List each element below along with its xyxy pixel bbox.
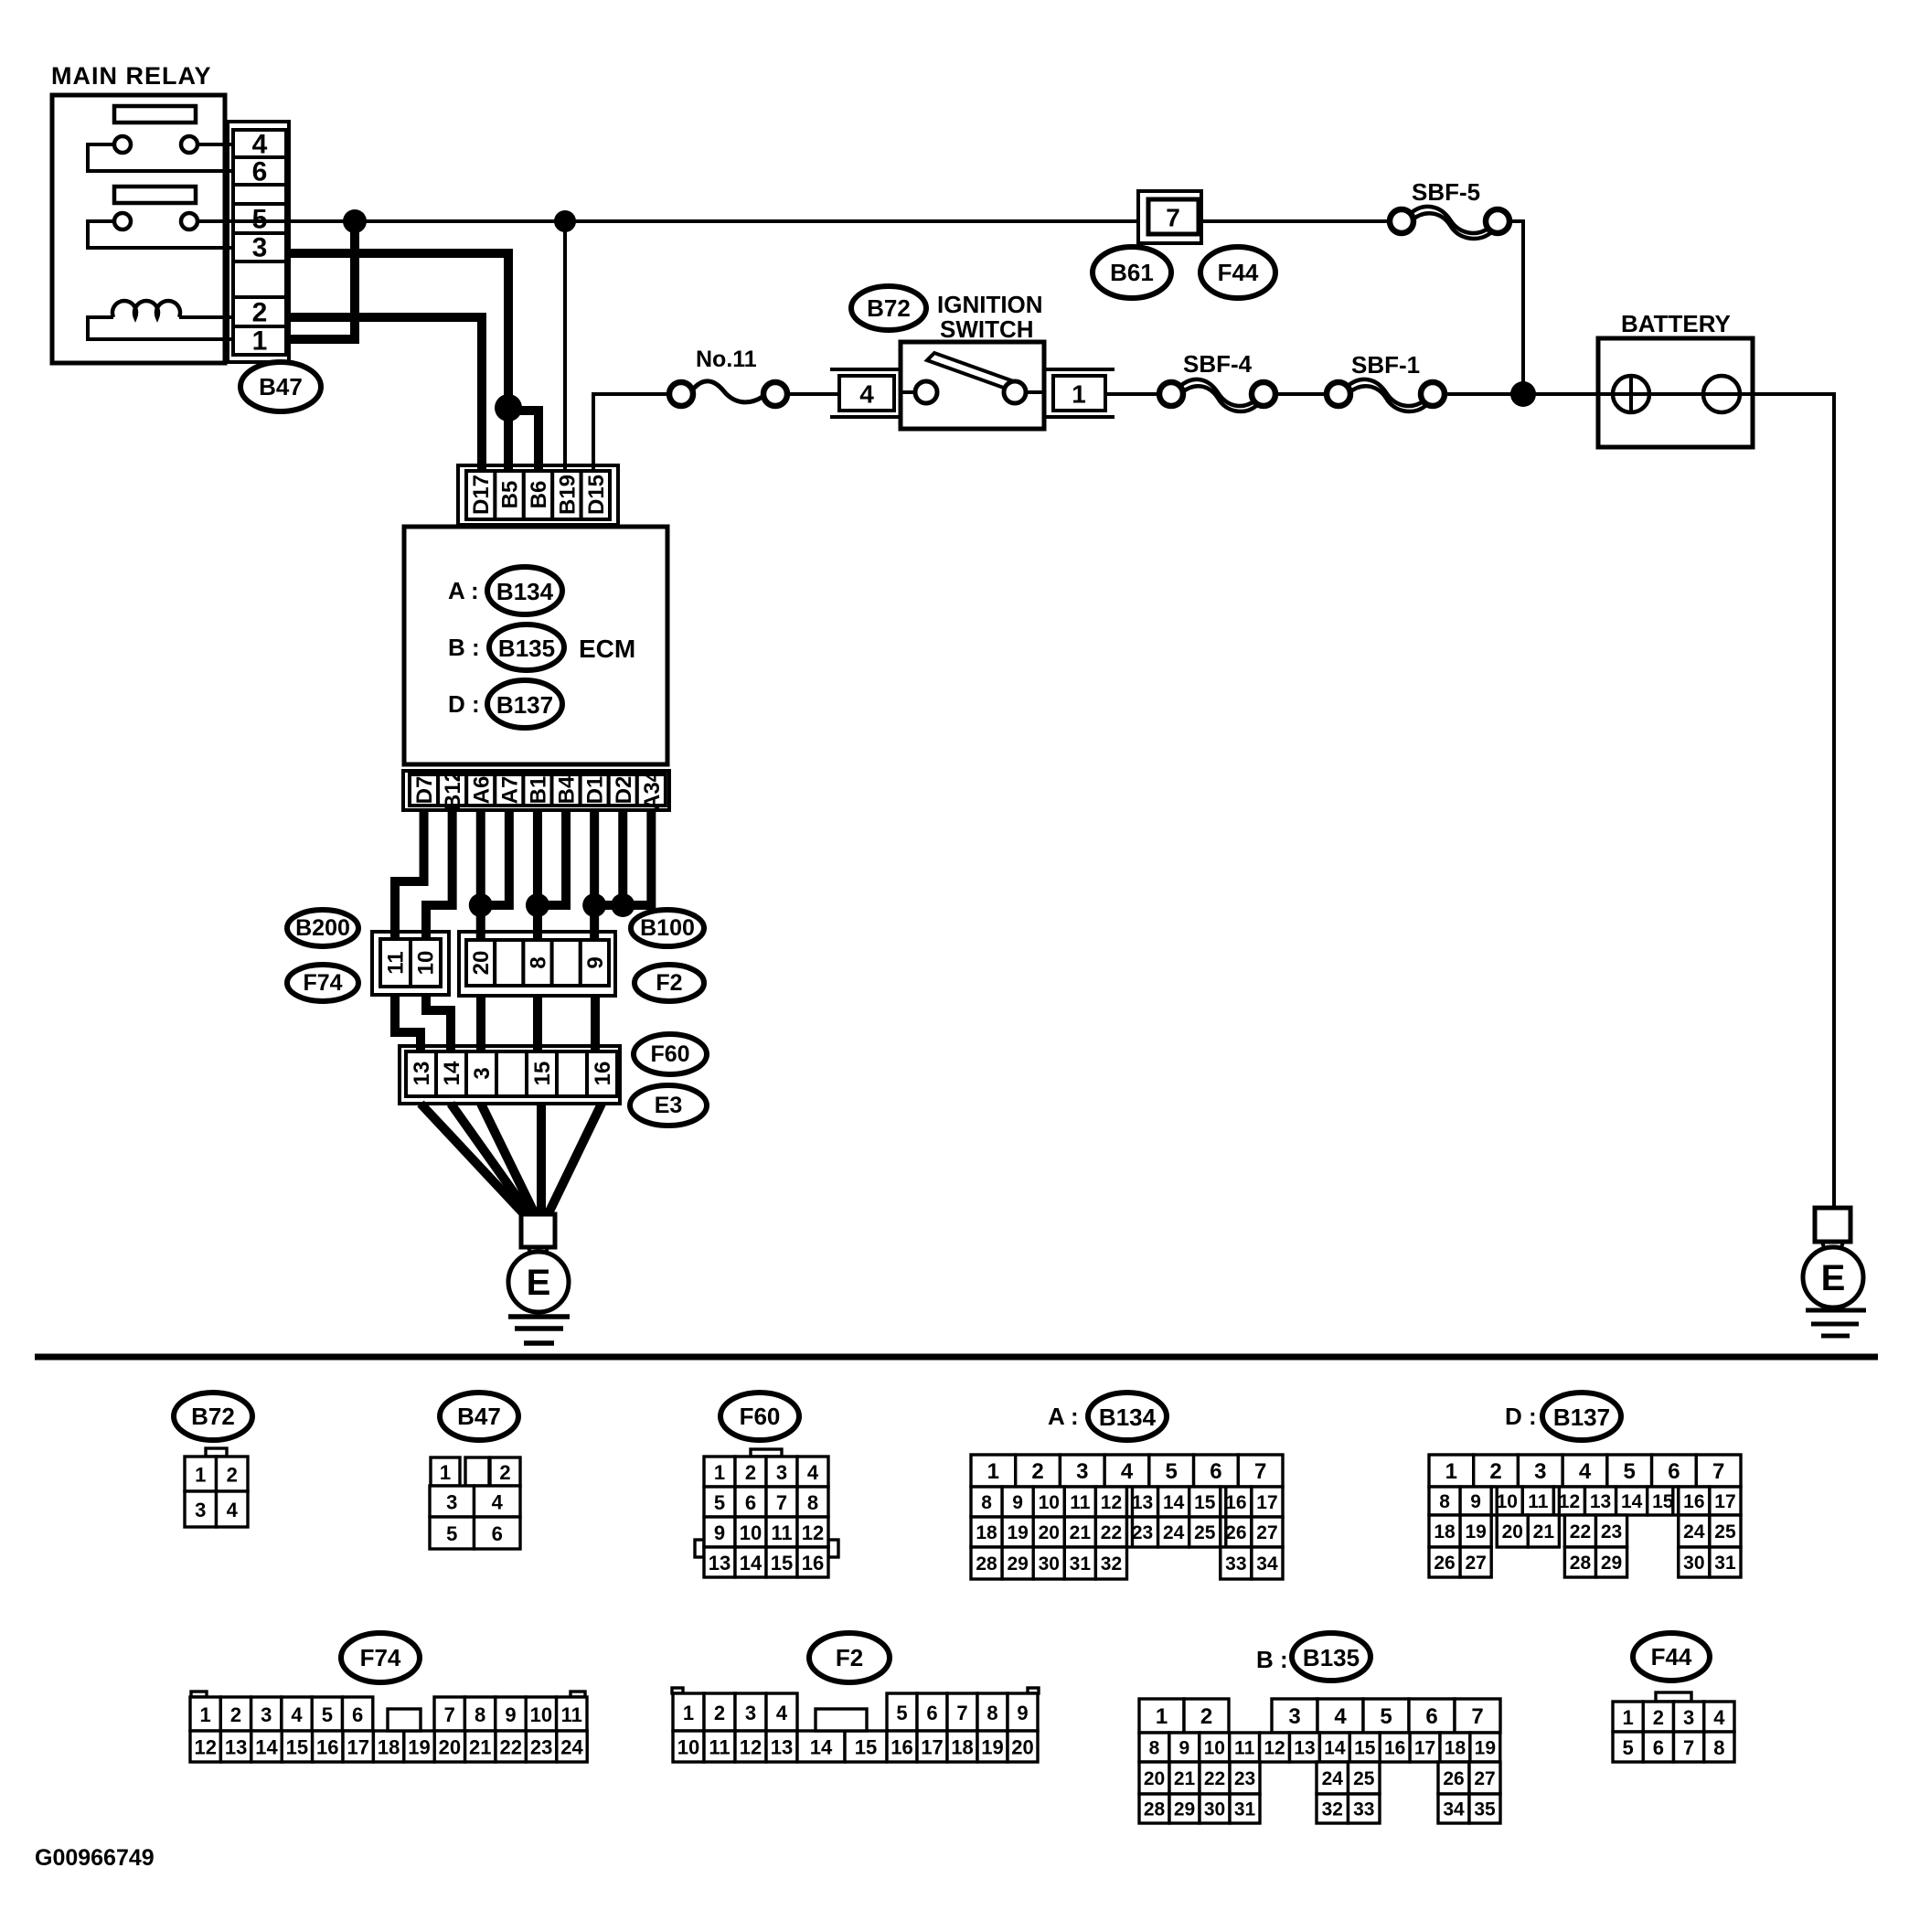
svg-text:17: 17	[1414, 1738, 1435, 1759]
svg-text:19: 19	[981, 1736, 1003, 1759]
svg-text:4: 4	[1334, 1704, 1347, 1729]
svg-text:B134: B134	[496, 578, 554, 605]
wire SBF-1 to battery	[1445, 392, 1598, 396]
connector B:B135 label	[1256, 1633, 1370, 1681]
svg-text:28: 28	[976, 1553, 997, 1574]
svg-text:28: 28	[1570, 1553, 1592, 1574]
svg-text:1: 1	[200, 1703, 211, 1726]
svg-text:10: 10	[740, 1521, 762, 1544]
connector D:B137 label	[1505, 1393, 1621, 1440]
wire relay pin 1 to B+ rail	[286, 221, 355, 339]
svg-text:3: 3	[1076, 1459, 1088, 1484]
svg-text:5: 5	[1623, 1736, 1634, 1759]
svg-text:B47: B47	[259, 373, 303, 400]
svg-text:7: 7	[1471, 1704, 1483, 1729]
wire SBF-5 down to battery node	[1509, 221, 1523, 394]
svg-text:3: 3	[195, 1499, 206, 1521]
svg-text:11: 11	[1070, 1492, 1091, 1513]
svg-text:8: 8	[527, 956, 551, 968]
svg-text:28: 28	[1144, 1799, 1166, 1820]
svg-text:10: 10	[1039, 1492, 1060, 1513]
svg-text:3: 3	[1534, 1459, 1546, 1484]
svg-text:D1: D1	[583, 776, 608, 805]
svg-text:A7: A7	[497, 776, 522, 805]
svg-text:13: 13	[225, 1736, 247, 1759]
svg-text:2: 2	[1489, 1459, 1501, 1484]
wire branch to ECM B6	[508, 411, 539, 473]
svg-text:B137: B137	[496, 691, 553, 719]
svg-text:E: E	[1821, 1258, 1846, 1298]
svg-text:1: 1	[987, 1459, 999, 1484]
svg-text:13: 13	[410, 1062, 434, 1086]
svg-text:12: 12	[802, 1521, 824, 1544]
svg-text:1: 1	[1445, 1459, 1457, 1484]
svg-text:25: 25	[1714, 1521, 1736, 1542]
svg-text:BATTERY: BATTERY	[1621, 310, 1731, 337]
wire ECM D7 to B200 pin 11	[395, 808, 424, 941]
svg-text:10: 10	[677, 1736, 699, 1759]
svg-text:14: 14	[1621, 1491, 1643, 1512]
svg-text:19: 19	[1007, 1522, 1028, 1543]
svg-text:4: 4	[492, 1491, 504, 1514]
svg-text:No.11: No.11	[696, 347, 757, 372]
wire F60 pin 16 to ground terminal	[547, 1104, 602, 1217]
svg-text:11: 11	[771, 1521, 792, 1544]
svg-text:4: 4	[227, 1499, 239, 1521]
svg-text:18: 18	[1445, 1738, 1466, 1759]
svg-text:27: 27	[1474, 1768, 1495, 1789]
ECM connector ref B	[448, 624, 564, 670]
connector F60/E3 block	[400, 1046, 620, 1104]
svg-text:27: 27	[1465, 1553, 1486, 1574]
svg-text:B19: B19	[555, 475, 580, 515]
svg-text:29: 29	[1174, 1799, 1195, 1820]
svg-text:15: 15	[530, 1062, 555, 1086]
svg-text:14: 14	[1324, 1738, 1346, 1759]
svg-text:5: 5	[1166, 1459, 1178, 1484]
ground E (battery side)	[1803, 1208, 1866, 1336]
connector label E3	[630, 1085, 707, 1126]
svg-text:6: 6	[1210, 1459, 1221, 1484]
svg-text:20: 20	[1039, 1522, 1060, 1543]
connector label F44 (top)	[1200, 247, 1275, 298]
svg-text:11: 11	[561, 1703, 582, 1726]
svg-text:B137: B137	[1553, 1404, 1610, 1431]
svg-text:5: 5	[1624, 1459, 1636, 1484]
svg-text:18: 18	[976, 1522, 997, 1543]
svg-text:6: 6	[1668, 1459, 1680, 1484]
svg-text:B100: B100	[640, 915, 695, 941]
svg-text:D2: D2	[612, 776, 636, 805]
svg-text:E3: E3	[655, 1093, 683, 1118]
svg-text:20: 20	[469, 951, 494, 976]
main relay contact bar 1	[114, 106, 196, 123]
svg-text:27: 27	[1256, 1522, 1277, 1543]
svg-text:25: 25	[1353, 1768, 1375, 1789]
svg-text:14: 14	[255, 1736, 278, 1759]
connector label F60 (pinout)	[720, 1393, 799, 1440]
svg-text:26: 26	[1434, 1553, 1455, 1574]
svg-text:11: 11	[384, 951, 409, 974]
svg-text:3: 3	[1288, 1704, 1300, 1729]
ECM caption	[579, 635, 635, 663]
svg-text:9: 9	[1017, 1702, 1028, 1724]
svg-text:12: 12	[1559, 1491, 1580, 1512]
ECM top connector	[458, 465, 618, 525]
svg-text:6: 6	[252, 157, 268, 187]
svg-text:2: 2	[227, 1464, 238, 1487]
svg-text:1: 1	[1156, 1704, 1168, 1729]
svg-text:13: 13	[771, 1736, 793, 1759]
svg-text:3: 3	[446, 1491, 457, 1514]
svg-text:8: 8	[475, 1703, 485, 1726]
svg-text:G00966749: G00966749	[35, 1845, 155, 1871]
svg-text:F74: F74	[303, 970, 342, 996]
wire ECM A7 joins A6	[481, 808, 509, 905]
main relay contact pair 2	[88, 213, 235, 248]
svg-text:30: 30	[1039, 1553, 1060, 1574]
wire ECM D2 joins D1	[594, 808, 623, 905]
svg-text:16: 16	[1683, 1491, 1704, 1512]
svg-text:B :: B :	[1256, 1646, 1288, 1673]
ECM connector ref A	[448, 567, 562, 614]
connector F60 pinout	[695, 1449, 838, 1577]
node junction D1/D2	[582, 893, 606, 917]
svg-text:13: 13	[1132, 1492, 1153, 1513]
svg-text:24: 24	[560, 1736, 583, 1759]
svg-text:A34: A34	[640, 769, 665, 810]
connector B47 (relay) shell	[228, 122, 289, 362]
connector label B47	[240, 362, 321, 411]
svg-text:14: 14	[810, 1736, 833, 1759]
wire B100 pin 20 to F60 pin 3	[476, 996, 485, 1053]
svg-text:4: 4	[291, 1703, 303, 1726]
ECM bottom connector	[403, 769, 669, 810]
connector F44 pinout	[1613, 1692, 1734, 1762]
wire ECM B4 joins B1	[538, 808, 566, 905]
svg-text:11: 11	[1528, 1491, 1549, 1512]
svg-text:10: 10	[1497, 1491, 1518, 1512]
svg-text:12: 12	[1264, 1738, 1285, 1759]
svg-text:16: 16	[316, 1736, 338, 1759]
svg-text:5: 5	[714, 1491, 725, 1514]
svg-text:B135: B135	[1303, 1644, 1360, 1671]
svg-text:2: 2	[252, 298, 268, 328]
svg-text:3: 3	[470, 1067, 495, 1079]
svg-text:24: 24	[1322, 1768, 1344, 1789]
svg-text:ECM: ECM	[579, 635, 635, 663]
svg-text:22: 22	[1570, 1521, 1591, 1542]
connector B200/F74 block	[372, 932, 449, 995]
wire ECM B19 to B+ rail	[563, 221, 567, 473]
svg-text:29: 29	[1007, 1553, 1028, 1574]
svg-text:2: 2	[1653, 1706, 1664, 1729]
svg-text:3: 3	[1683, 1706, 1694, 1729]
ECM connector ref D	[448, 680, 562, 728]
svg-text:1: 1	[440, 1461, 451, 1484]
svg-text:1: 1	[1623, 1706, 1634, 1729]
svg-text:31: 31	[1070, 1553, 1092, 1574]
svg-text:33: 33	[1225, 1553, 1246, 1574]
svg-text:7: 7	[1683, 1736, 1694, 1759]
main relay label	[51, 62, 212, 90]
svg-text:21: 21	[1533, 1521, 1555, 1542]
svg-text:14: 14	[1163, 1492, 1185, 1513]
svg-text:11: 11	[1234, 1738, 1255, 1759]
svg-text:9: 9	[1179, 1738, 1190, 1759]
svg-text:F2: F2	[656, 970, 682, 996]
svg-text:5: 5	[322, 1703, 333, 1726]
main relay coil	[88, 301, 235, 339]
svg-text:B72: B72	[191, 1403, 235, 1430]
connector label F74 (pinout)	[341, 1633, 420, 1682]
svg-text:16: 16	[891, 1736, 912, 1759]
svg-text:10: 10	[414, 951, 439, 976]
wire relay pin 2 to ECM D17	[286, 317, 482, 473]
connector B47 pin 3	[252, 233, 268, 263]
svg-text:B12: B12	[441, 770, 465, 810]
svg-text:35: 35	[1474, 1799, 1496, 1820]
svg-text:17: 17	[1256, 1492, 1277, 1513]
svg-text:IGNITION: IGNITION	[937, 291, 1043, 318]
svg-text:21: 21	[1070, 1522, 1092, 1543]
svg-text:29: 29	[1601, 1553, 1622, 1574]
svg-text:19: 19	[1465, 1521, 1486, 1542]
svg-text:B4: B4	[555, 775, 580, 804]
node junction SBF-5/battery	[1510, 381, 1536, 407]
svg-text:D17: D17	[469, 475, 494, 515]
svg-text:2: 2	[1200, 1704, 1212, 1729]
connector B47 pin 6	[252, 157, 268, 187]
fuse SBF-4	[1159, 350, 1275, 411]
svg-text:D :: D :	[1505, 1403, 1537, 1430]
svg-text:7: 7	[1166, 204, 1180, 232]
node junction pin1-rail	[343, 209, 367, 233]
svg-text:4: 4	[807, 1461, 819, 1484]
wire ECM B1 to B100 pin 8	[533, 808, 542, 942]
svg-text:7: 7	[956, 1702, 967, 1724]
connector label B100	[631, 910, 704, 946]
wire ECM D15 to ignition feed	[593, 394, 670, 473]
main relay contact bar 2	[114, 187, 196, 203]
svg-text:20: 20	[1144, 1768, 1165, 1789]
wire ignition switch to SBF-4	[1105, 392, 1159, 396]
svg-text:17: 17	[1714, 1491, 1735, 1512]
svg-text:F44: F44	[1218, 259, 1259, 286]
svg-text:F44: F44	[1651, 1643, 1692, 1670]
svg-text:16: 16	[591, 1062, 615, 1086]
svg-text:31: 31	[1234, 1799, 1256, 1820]
svg-text:9: 9	[505, 1703, 516, 1726]
svg-text:21: 21	[1174, 1768, 1196, 1789]
wire F60 pin 14 to ground terminal	[451, 1104, 531, 1217]
wire SBF-4 to SBF-1	[1275, 392, 1327, 396]
wire B100 pin 8 to F60 pin 15	[533, 996, 542, 1053]
svg-text:19: 19	[408, 1736, 430, 1759]
svg-text:F74: F74	[360, 1644, 401, 1671]
svg-text:10: 10	[530, 1703, 552, 1726]
svg-text:7: 7	[1712, 1459, 1724, 1484]
fuse No.11	[669, 347, 787, 406]
svg-text:B200: B200	[295, 915, 350, 941]
svg-text:5: 5	[896, 1702, 907, 1724]
connector B137 pinout	[1429, 1455, 1741, 1577]
connector label F44 (pinout)	[1633, 1633, 1710, 1681]
svg-text:9: 9	[714, 1521, 725, 1544]
wire fuse No.11 to ignition switch pin 4	[787, 392, 839, 396]
node junction D2/A34	[611, 893, 635, 917]
ignition switch B72	[901, 342, 1044, 429]
ECM box	[404, 527, 667, 764]
wire ECM A34 joins D2	[623, 808, 651, 905]
svg-text:15: 15	[1354, 1738, 1376, 1759]
svg-text:8: 8	[1149, 1738, 1160, 1759]
connector B47 pin 1	[252, 326, 268, 357]
svg-text:4: 4	[1579, 1459, 1592, 1484]
svg-text:6: 6	[745, 1491, 756, 1514]
svg-text:14: 14	[440, 1061, 464, 1085]
svg-text:15: 15	[286, 1736, 308, 1759]
svg-text:9: 9	[1470, 1491, 1481, 1512]
svg-text:7: 7	[776, 1491, 787, 1514]
svg-text:B61: B61	[1110, 259, 1154, 286]
connector label B72 (ignition switch)	[851, 286, 926, 330]
connector B47 pin 4	[252, 130, 268, 160]
svg-text:5: 5	[446, 1522, 457, 1545]
svg-text:4: 4	[776, 1702, 788, 1724]
svg-text:9: 9	[1012, 1492, 1023, 1513]
svg-text:2: 2	[230, 1703, 241, 1726]
svg-text:33: 33	[1353, 1799, 1374, 1820]
svg-text:20: 20	[1502, 1521, 1523, 1542]
connector F2 pinout	[672, 1688, 1039, 1762]
svg-text:17: 17	[921, 1736, 943, 1759]
svg-text:MAIN RELAY: MAIN RELAY	[51, 62, 212, 90]
svg-text:B72: B72	[867, 294, 911, 322]
svg-text:15: 15	[855, 1736, 877, 1759]
svg-text:6: 6	[352, 1703, 363, 1726]
wire ECM D1 to B100 pin 9	[590, 808, 599, 942]
ignition switch caption	[937, 291, 1043, 343]
svg-text:B5: B5	[498, 481, 523, 509]
svg-text:13: 13	[1590, 1491, 1611, 1512]
battery	[1598, 310, 1753, 447]
connector F74 pinout	[190, 1692, 587, 1762]
svg-text:14: 14	[740, 1552, 763, 1574]
wire F60 pin 3 to ground terminal	[481, 1104, 536, 1216]
svg-text:34: 34	[1256, 1553, 1278, 1574]
svg-text:11: 11	[709, 1736, 730, 1759]
svg-text:12: 12	[1101, 1492, 1122, 1513]
svg-text:4: 4	[1121, 1459, 1134, 1484]
svg-text:18: 18	[1434, 1521, 1456, 1542]
svg-text:26: 26	[1225, 1522, 1246, 1543]
svg-text:2: 2	[745, 1461, 756, 1484]
svg-text:8: 8	[981, 1492, 992, 1513]
svg-text:23: 23	[1132, 1522, 1153, 1543]
svg-text:22: 22	[499, 1736, 521, 1759]
svg-text:22: 22	[1204, 1768, 1225, 1789]
ignition switch pin box 1	[1046, 369, 1114, 417]
svg-text:B135: B135	[498, 635, 555, 662]
svg-text:6: 6	[1653, 1736, 1664, 1759]
svg-text:15: 15	[1194, 1492, 1216, 1513]
connector label F60 (top)	[634, 1034, 707, 1074]
svg-text:16: 16	[802, 1552, 824, 1574]
svg-text:1: 1	[683, 1702, 694, 1724]
svg-text:9: 9	[583, 956, 608, 968]
connector label B61	[1093, 247, 1171, 298]
svg-text:1: 1	[252, 326, 268, 357]
connector B134 pinout	[971, 1455, 1283, 1579]
svg-text:16: 16	[1384, 1738, 1405, 1759]
svg-text:A6: A6	[469, 776, 494, 805]
connector label F2 (pinout)	[809, 1633, 890, 1682]
connector B72 pinout	[185, 1448, 248, 1527]
separator line	[35, 1354, 1878, 1361]
svg-text:B47: B47	[457, 1403, 501, 1430]
svg-text:20: 20	[1011, 1736, 1033, 1759]
svg-text:4: 4	[252, 130, 268, 160]
svg-text:12: 12	[740, 1736, 762, 1759]
svg-text:8: 8	[807, 1491, 818, 1514]
svg-text:SBF-5: SBF-5	[1412, 178, 1480, 206]
node junction B1/B4	[526, 893, 549, 917]
ignition switch pin box 4	[830, 369, 903, 417]
wire B100 pin 9 to F60 pin 16	[591, 996, 600, 1053]
svg-text:20: 20	[439, 1736, 461, 1759]
svg-text:2: 2	[1031, 1459, 1043, 1484]
svg-text:30: 30	[1204, 1799, 1225, 1820]
wire B200 pin 11 to F60 pin 13	[395, 995, 421, 1053]
svg-text:12: 12	[194, 1736, 216, 1759]
svg-text:6: 6	[492, 1522, 503, 1545]
svg-text:23: 23	[1601, 1521, 1622, 1542]
svg-text:32: 32	[1101, 1553, 1122, 1574]
svg-text:2: 2	[499, 1461, 510, 1484]
svg-text:22: 22	[1101, 1522, 1122, 1543]
svg-text:5: 5	[1380, 1704, 1392, 1729]
connector B135 pinout	[1139, 1699, 1500, 1823]
main relay contact pair 1	[88, 136, 235, 171]
svg-text:6: 6	[926, 1702, 937, 1724]
svg-text:13: 13	[1294, 1738, 1315, 1759]
wire F60 pin 15 to ground terminal	[537, 1104, 546, 1216]
svg-text:SWITCH: SWITCH	[940, 315, 1034, 343]
svg-text:23: 23	[1234, 1768, 1255, 1789]
svg-text:B6: B6	[527, 481, 551, 509]
svg-text:19: 19	[1475, 1738, 1496, 1759]
svg-text:4: 4	[859, 380, 874, 409]
svg-text:F60: F60	[740, 1403, 781, 1430]
svg-text:D15: D15	[584, 475, 609, 515]
svg-text:D7: D7	[412, 776, 437, 805]
svg-text:F2: F2	[836, 1644, 863, 1671]
wire ECM A6 to B100 pin 20	[476, 808, 485, 942]
svg-text:E: E	[527, 1263, 551, 1303]
svg-text:15: 15	[771, 1552, 793, 1574]
fuse SBF-5	[1390, 178, 1509, 239]
svg-text:26: 26	[1443, 1768, 1464, 1789]
wire relay pin 3 to ECM B5	[286, 253, 508, 473]
svg-text:3: 3	[745, 1702, 756, 1724]
fuse SBF-1	[1327, 351, 1445, 411]
wire B+ rail from relay pin 5 to SBF-5	[197, 219, 1402, 223]
connector B47 pinout	[430, 1457, 520, 1549]
svg-text:6: 6	[1425, 1704, 1437, 1729]
svg-text:F60: F60	[650, 1041, 689, 1067]
wire B200 pin 10 to F60 pin 14	[426, 995, 451, 1053]
